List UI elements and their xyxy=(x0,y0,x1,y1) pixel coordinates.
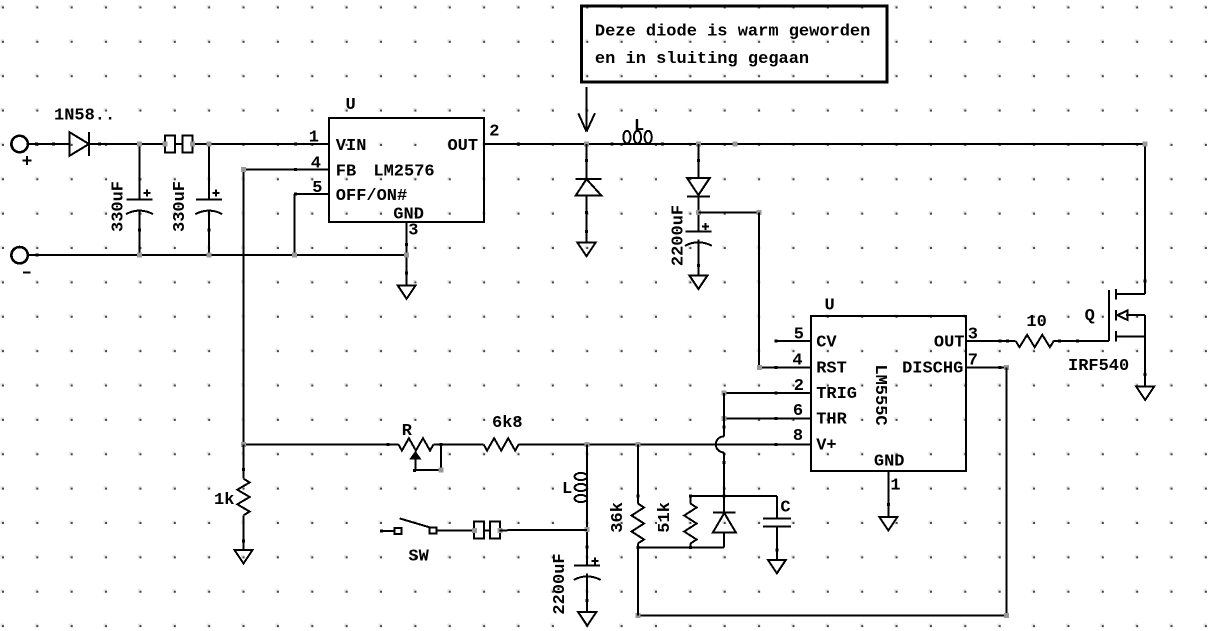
junction bottom rail C2 xyxy=(206,253,211,258)
callout arrow xyxy=(586,87,588,130)
svg-text:1N58..: 1N58.. xyxy=(54,107,115,126)
svg-text:6k8: 6k8 xyxy=(492,414,523,433)
svg-text:51k: 51k xyxy=(656,502,675,533)
diode D2 freewheel xyxy=(586,144,588,179)
svg-text:LM2576: LM2576 xyxy=(373,162,434,181)
wire top rail diode to LM2576 VIN xyxy=(89,143,329,145)
svg-text:8: 8 xyxy=(793,427,803,446)
pin 5 OFF/ON wire xyxy=(295,193,329,195)
potentiometer R xyxy=(386,443,389,446)
pin 4 RST wire xyxy=(759,367,811,369)
svg-text:SW: SW xyxy=(408,547,429,566)
capacitor 330uF #2 xyxy=(208,144,210,200)
node A top bar xyxy=(690,495,777,497)
svg-text:10: 10 xyxy=(1026,313,1046,332)
wire fuse F2 to L2 riser xyxy=(499,529,587,532)
TRIG/THR riser with hop over V+ wire xyxy=(723,393,725,436)
svg-text:3: 3 xyxy=(968,326,978,345)
wire switch to fuse F2 xyxy=(437,529,475,531)
svg-text:GND: GND xyxy=(874,452,905,471)
node + terminal xyxy=(11,136,27,152)
ground under Q1 source xyxy=(1136,387,1154,401)
capacitor C xyxy=(776,496,778,519)
svg-text:4: 4 xyxy=(792,352,802,371)
junction top rail C2 xyxy=(206,142,211,147)
capacitor 2200uF C3 xyxy=(685,230,711,232)
resistor 1k xyxy=(243,444,245,478)
inductor L1 top xyxy=(623,131,630,144)
svg-text:V+: V+ xyxy=(816,436,836,455)
op-amp U1 LM2576 box xyxy=(329,118,484,222)
resistor 36k xyxy=(637,444,639,503)
svg-text:L: L xyxy=(562,480,572,499)
wire top rail from + terminal to diode xyxy=(28,143,70,145)
capacitor 2200uF C4 xyxy=(574,564,600,566)
ground under LM555C xyxy=(879,517,897,531)
svg-text:OFF/ON#: OFF/ON# xyxy=(336,187,407,206)
svg-text:FB: FB xyxy=(336,162,356,181)
junction FB riser to bottom wire xyxy=(241,442,246,447)
ground under 1k xyxy=(235,550,253,564)
svg-text:330uF: 330uF xyxy=(171,181,190,232)
svg-text:LM555C: LM555C xyxy=(870,364,889,425)
node - terminal xyxy=(11,247,27,263)
wire DISCHG down and across bottom xyxy=(1006,368,1008,616)
svg-text:1k: 1k xyxy=(214,491,234,510)
svg-text:Q: Q xyxy=(1085,307,1095,326)
pin 6 THR wire xyxy=(724,417,811,419)
svg-text:CV: CV xyxy=(816,334,837,353)
junction D3-C3 xyxy=(696,210,701,215)
diode D3 xyxy=(697,144,699,178)
node bottom bar xyxy=(638,546,724,548)
resistor 51k xyxy=(689,496,691,504)
svg-text:RST: RST xyxy=(816,360,847,379)
pin 7 DISCHG wire xyxy=(966,367,1007,369)
wire LM2576 OUT to right corner xyxy=(484,143,1145,145)
svg-text:1: 1 xyxy=(309,129,319,148)
svg-text:VIN: VIN xyxy=(336,137,367,156)
ground under C xyxy=(768,560,786,574)
svg-text:R: R xyxy=(402,422,413,441)
svg-text:2200uF: 2200uF xyxy=(551,553,570,614)
svg-text:IRF540: IRF540 xyxy=(1068,357,1129,376)
wire right drop to MOSFET drain xyxy=(1144,144,1146,294)
svg-text:6: 6 xyxy=(793,402,803,421)
diode D4 xyxy=(713,512,736,514)
junction top right corner xyxy=(1143,142,1148,147)
svg-text:DISCHG: DISCHG xyxy=(902,360,963,379)
pin 4 FB wire xyxy=(244,169,330,171)
svg-text:1: 1 xyxy=(890,476,900,495)
ground under D2 xyxy=(578,243,596,257)
svg-text:U: U xyxy=(346,96,356,115)
svg-text:7: 7 xyxy=(968,352,978,371)
fuse F1 xyxy=(165,143,193,145)
svg-text:36k: 36k xyxy=(609,502,628,533)
resistor 6k8 xyxy=(484,438,519,450)
op-amp U2 LM555C box xyxy=(811,316,966,471)
junction top rail at D3 xyxy=(696,142,701,147)
svg-text:OUT: OUT xyxy=(447,137,478,156)
pot wiper arrow xyxy=(411,453,420,459)
svg-text:OUT: OUT xyxy=(934,334,965,353)
junction top rail at D2 xyxy=(584,142,589,147)
svg-text:2200uF: 2200uF xyxy=(670,205,689,266)
ground under LM2576 xyxy=(398,285,416,299)
svg-text:en in sluiting gegaan: en in sluiting gegaan xyxy=(595,50,809,69)
pin 8 V+ wire xyxy=(519,443,811,445)
svg-text:THR: THR xyxy=(816,410,847,429)
junction V+ wire at L2 riser xyxy=(585,442,590,447)
junction L2 riser with switch wire xyxy=(585,527,590,532)
svg-text:2: 2 xyxy=(489,122,499,141)
capacitor 330uF #1 xyxy=(139,144,141,200)
callout box xyxy=(581,6,887,82)
inductor L2 vertical xyxy=(586,444,588,565)
svg-text:C: C xyxy=(780,499,790,518)
ground under C4 xyxy=(578,612,596,626)
ground under C3 xyxy=(689,276,707,290)
svg-text:4: 4 xyxy=(311,154,321,173)
fuse F2 xyxy=(475,529,500,531)
pin 3 GND wire xyxy=(406,222,408,285)
junction bottom rail C1 xyxy=(137,253,142,258)
svg-text:Deze diode is warm geworden: Deze diode is warm geworden xyxy=(595,23,870,42)
wire D3 node to RST riser xyxy=(698,212,759,214)
diode 1N58.. xyxy=(70,132,90,156)
resistor 10 xyxy=(1016,335,1054,347)
svg-text:5: 5 xyxy=(794,326,804,345)
wire bottom rail from - terminal xyxy=(28,254,407,256)
pin 2 TRIG wire xyxy=(724,392,811,394)
pin 1 GND stem xyxy=(887,471,889,517)
svg-text:2: 2 xyxy=(794,377,804,396)
pin 5 CV stub xyxy=(776,340,811,342)
svg-text:L: L xyxy=(634,117,644,136)
junction V+ wire at 36k xyxy=(635,442,640,447)
svg-text:TRIG: TRIG xyxy=(816,385,857,404)
switch SW xyxy=(381,530,395,532)
svg-text:330uF: 330uF xyxy=(110,181,129,232)
junction top rail C1 xyxy=(137,142,142,147)
svg-text:5: 5 xyxy=(312,179,322,198)
svg-text:3: 3 xyxy=(408,222,418,241)
svg-text:U: U xyxy=(825,297,835,316)
pin 3 OUT wire xyxy=(966,340,1016,342)
